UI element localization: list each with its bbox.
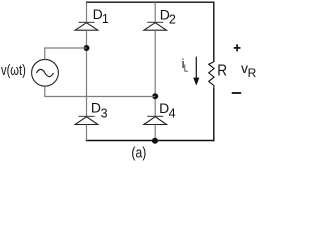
diode D2 xyxy=(144,22,167,30)
wire: D4 anode lead to bottom rail xyxy=(154,125,156,141)
label D3 xyxy=(91,100,108,121)
label v(wt) source xyxy=(1,62,26,79)
svg-text:4: 4 xyxy=(169,107,176,121)
svg-text:D: D xyxy=(91,100,101,116)
label R (resistor value) xyxy=(217,62,227,79)
node: bottom rail junction at D4 xyxy=(152,138,158,144)
diode D3 xyxy=(75,116,98,124)
label + polarity xyxy=(234,44,241,51)
wire: D1 cathode lead (top rail to D1) xyxy=(86,2,88,22)
label D4 xyxy=(159,100,176,121)
svg-text:L: L xyxy=(184,63,189,74)
wire: bottom rail xyxy=(86,140,215,142)
label D1 xyxy=(93,6,109,26)
wire: source bottom lead (crosses left branch, to D4 junction) xyxy=(45,86,155,96)
wire: source top lead xyxy=(45,48,87,59)
diode D4 xyxy=(144,116,167,124)
svg-text:1: 1 xyxy=(102,12,109,26)
node: source-to-right-branch junction xyxy=(152,93,158,99)
svg-text:R: R xyxy=(248,66,257,80)
wire: top rail xyxy=(86,1,214,3)
wire: left branch middle (D1 anode to D3 cathode) xyxy=(86,30,88,116)
svg-text:v(ωt): v(ωt) xyxy=(1,62,26,79)
wire: right rail lower segment xyxy=(213,88,215,141)
wire: right rail upper segment xyxy=(213,2,215,62)
svg-text:R: R xyxy=(217,62,227,79)
source V1 circle with sine xyxy=(32,59,59,86)
wire: right branch middle (D2 anode to D4 cathode) xyxy=(154,30,156,116)
label vR voltage xyxy=(241,60,257,80)
label - polarity xyxy=(232,92,242,94)
label D2 xyxy=(160,7,176,27)
svg-text:3: 3 xyxy=(101,107,108,121)
label iL current xyxy=(182,56,189,74)
wire: D3 anode lead to bottom rail xyxy=(86,125,88,141)
svg-text:2: 2 xyxy=(169,12,176,26)
arrow: iL current direction xyxy=(193,57,199,86)
diode D1 xyxy=(75,22,98,30)
label (a) caption xyxy=(131,145,146,162)
node: source-to-left-branch junction xyxy=(84,45,90,51)
wire: D2 cathode lead (top rail to D2) xyxy=(154,2,156,22)
resistor R xyxy=(209,62,214,88)
svg-text:(a): (a) xyxy=(131,145,146,162)
